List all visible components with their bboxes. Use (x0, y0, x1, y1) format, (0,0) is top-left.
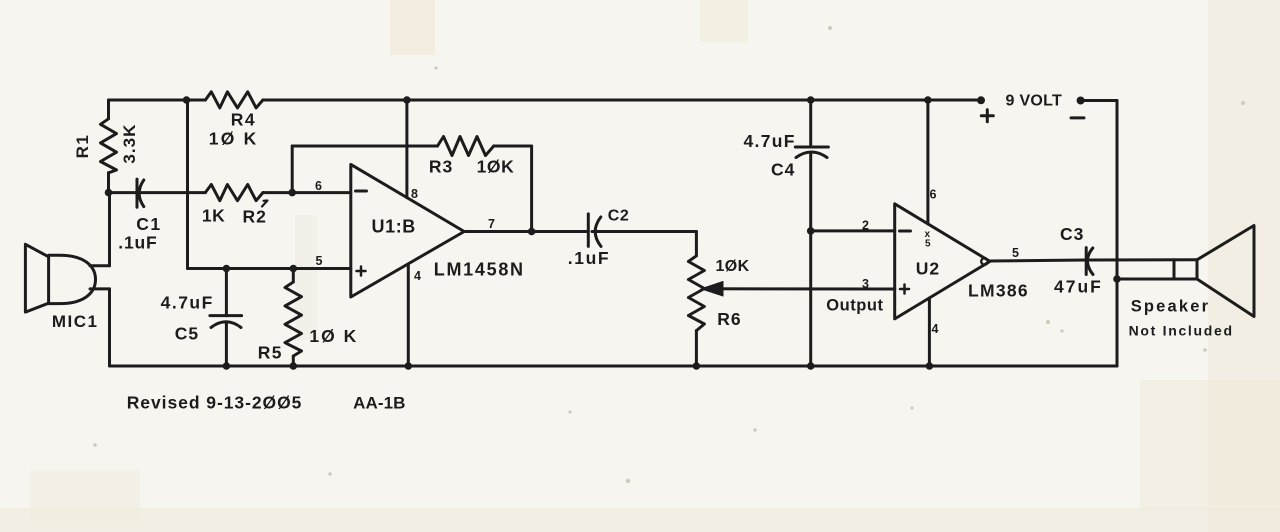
wire R1 bottom lead (107, 173, 110, 193)
label Not Included (1129, 323, 1234, 339)
svg-text:C3: C3 (1060, 224, 1084, 244)
op-amp U1 minus sign (356, 190, 367, 193)
wire mic top stub (90, 264, 110, 267)
wire U1 output pin7 (464, 230, 588, 233)
wire speaker bottom lead (1117, 278, 1197, 281)
svg-text:Output: Output (826, 297, 883, 315)
pin label 3 U2 (862, 277, 869, 291)
svg-text:LM1458N: LM1458N (434, 260, 525, 280)
speaker driver rectangle (1174, 260, 1197, 279)
label LM1458N (434, 260, 525, 280)
svg-text:4: 4 (932, 322, 939, 336)
wire right vertical (1116, 101, 1119, 367)
battery minus terminal dot (1077, 97, 1085, 105)
label R6 (717, 309, 741, 329)
wire C1 left lead (109, 191, 138, 194)
wire R6 wiper to pin3 (706, 287, 895, 290)
label Revised date (127, 393, 303, 413)
pin label 4 U1 (414, 269, 421, 283)
resistor R4 (205, 92, 263, 108)
label LM386 (968, 281, 1029, 301)
capacitor C4 (795, 147, 828, 158)
label x5 gain mark (925, 229, 932, 250)
wire R2 to node (263, 191, 292, 194)
wire feedback horizontal (292, 145, 437, 148)
speaker horn (1197, 226, 1254, 317)
svg-text:Speaker: Speaker (1131, 298, 1211, 316)
wire mic bottom vertical (108, 289, 111, 366)
wire plus input horizontal (188, 267, 351, 270)
svg-text:C5: C5 (175, 324, 199, 344)
resistor R2 (205, 185, 263, 201)
label C1 value .1uF (118, 233, 157, 253)
wire U2 pin4 vertical (928, 298, 931, 366)
node dot U1 pin8 (403, 96, 411, 104)
scan speckles (93, 26, 1245, 483)
svg-text:1ØK: 1ØK (716, 258, 750, 275)
op-amp U2 minus sign (900, 230, 911, 233)
wire R6 top lead (695, 232, 698, 256)
label R2 value 1K (202, 206, 225, 226)
svg-text:5: 5 (1012, 246, 1019, 260)
label C3 value 47uF (1054, 277, 1103, 297)
label R6 value 10K (716, 258, 750, 275)
label Output (826, 297, 883, 315)
svg-text:U1:B: U1:B (372, 217, 416, 237)
node dot R6 ground (693, 362, 701, 370)
wire C4 node to ground (809, 231, 812, 366)
wire pin6 input (292, 191, 351, 194)
op-amp U2 triangle (895, 204, 990, 319)
svg-text:3.3K: 3.3K (120, 124, 139, 164)
svg-text:5: 5 (925, 239, 931, 250)
svg-text:.1uF: .1uF (568, 248, 610, 268)
label R4 value 10 K (209, 129, 259, 149)
svg-text:4.7uF: 4.7uF (744, 131, 796, 151)
node dot U2 pin6 (924, 96, 932, 104)
label C4 (771, 160, 795, 180)
node dot output feedback junction (528, 228, 536, 236)
svg-text:47uF: 47uF (1054, 277, 1103, 297)
capacitor C3 (1086, 248, 1093, 275)
wire feedback down to output (530, 146, 533, 232)
svg-text:R4: R4 (231, 110, 256, 130)
wire R5 bottom lead (292, 356, 295, 366)
potentiometer R6 wiper arrow (701, 282, 723, 297)
svg-text:R6: R6 (717, 309, 741, 329)
svg-text:C1: C1 (136, 214, 161, 234)
resistor R5 (285, 282, 302, 356)
node dot C4 top (807, 96, 815, 104)
pin label 8 U1 (411, 187, 418, 201)
op-amp U2 plus sign (900, 285, 909, 294)
label C5 (175, 324, 199, 344)
wire R6 bottom lead (695, 331, 698, 366)
op-amp U1 plus sign (357, 267, 366, 276)
battery plus terminal dot (977, 96, 985, 104)
wire U1 pin8 vertical (405, 100, 408, 198)
wire bottom rail (110, 365, 1118, 368)
node dot C5 bottom (223, 362, 231, 370)
wire C4 bottom to pin2 node (809, 153, 812, 231)
svg-text:U2: U2 (916, 259, 940, 279)
wire bias divider vertical (186, 100, 189, 269)
node dot C1 junction (105, 189, 113, 197)
wire C5 bottom lead (225, 323, 228, 367)
wire left vertical top lead (107, 100, 110, 119)
svg-text:MIC1: MIC1 (52, 312, 99, 331)
label C1 (136, 214, 161, 234)
label C3 (1060, 224, 1084, 244)
svg-text:1Ø K: 1Ø K (309, 326, 358, 346)
node dot top rail divider (183, 96, 191, 104)
svg-text:6: 6 (315, 179, 322, 193)
microphone MIC1 cone (25, 244, 48, 312)
svg-text:2: 2 (862, 219, 869, 233)
node dot U2 pin4 ground (926, 362, 934, 370)
label U1:B (372, 217, 416, 237)
label MIC1 (52, 312, 99, 331)
label R5 value 10 K (309, 326, 358, 346)
svg-text:8: 8 (411, 187, 418, 201)
wire C1 to R2 (140, 191, 205, 194)
label C2 (608, 208, 629, 225)
svg-text:1K: 1K (202, 206, 225, 226)
wire R5 top lead (292, 269, 295, 283)
node dot R5 top (290, 265, 298, 273)
svg-text:5: 5 (316, 254, 323, 268)
wire C2 to corner (592, 230, 696, 233)
pin label 5 U1 (316, 254, 323, 268)
resistor R1 (101, 119, 117, 173)
svg-text:C2: C2 (608, 208, 629, 225)
node dot C4 ground (807, 362, 815, 370)
wire battery minus to right corner (1081, 99, 1117, 102)
battery plus sign (981, 110, 993, 122)
node dot pin2 corner (807, 227, 815, 235)
svg-text:1Ø K: 1Ø K (209, 129, 259, 149)
wire R3 to corner (494, 145, 532, 148)
label R4 (231, 110, 256, 130)
svg-text:R1: R1 (73, 134, 92, 159)
wire C4 top lead (809, 100, 812, 147)
svg-text:R3: R3 (429, 157, 453, 177)
svg-text:LM386: LM386 (968, 281, 1029, 301)
svg-text:7: 7 (488, 217, 495, 231)
wire mic bottom stub (90, 287, 110, 290)
svg-text:AA-1B: AA-1B (353, 394, 405, 413)
wire C5 top lead (225, 269, 228, 316)
svg-text:6: 6 (930, 188, 937, 202)
wire top rail left segment (109, 99, 206, 102)
resistor R3 (438, 137, 494, 156)
label AA-1B (353, 394, 405, 413)
op-amp U2 output circle (981, 258, 988, 265)
pin label 7 U1 (488, 217, 495, 231)
pin label 4 U2 (932, 322, 939, 336)
label Speaker (1131, 298, 1211, 316)
label 9 VOLT (1006, 93, 1063, 110)
wire C3 to speaker top (1090, 258, 1197, 261)
capacitor C1 (137, 179, 144, 207)
svg-text:Not Included: Not Included (1129, 323, 1234, 339)
pin label 5 U2 (1012, 246, 1019, 260)
wire mic top vertical (108, 193, 111, 266)
microphone MIC1 capsule (49, 255, 96, 303)
R2 tick mark (262, 201, 268, 207)
wire feedback vertical (291, 146, 294, 193)
wire U1 pin4 vertical (407, 264, 410, 366)
svg-text:3: 3 (862, 277, 869, 291)
wire U2 pin6 vertical (926, 100, 929, 224)
capacitor C5 (210, 316, 242, 328)
pin label 6 U2 (930, 188, 937, 202)
svg-text:R2: R2 (243, 207, 267, 227)
node dot speaker bottom (1113, 275, 1121, 283)
potentiometer R6 (688, 256, 704, 331)
node dot C5 top (223, 265, 231, 273)
battery minus sign (1071, 116, 1084, 119)
pin label 6 U1 (315, 179, 322, 193)
svg-text:.1uF: .1uF (118, 233, 157, 253)
label R5 (258, 343, 283, 363)
op-amp U1 triangle (351, 164, 464, 297)
label R1 (73, 134, 92, 159)
label C4 value 4.7uF (744, 131, 796, 151)
node dot R2 pin6 junction (288, 189, 296, 197)
capacitor C2 (588, 214, 601, 247)
svg-text:9 VOLT: 9 VOLT (1006, 93, 1063, 110)
node dot U1 pin4 ground (405, 362, 413, 370)
label C2 value .1uF (568, 248, 610, 268)
svg-text:Revised 9-13-2ØØ5: Revised 9-13-2ØØ5 (127, 393, 303, 413)
wire U2 pin5 output (989, 260, 1087, 261)
label C5 value 4.7uF (161, 293, 214, 313)
label R3 value 10K (477, 157, 515, 177)
label R3 (429, 157, 453, 177)
svg-text:C4: C4 (771, 160, 795, 180)
label U2 (916, 259, 940, 279)
svg-text:R5: R5 (258, 343, 283, 363)
label R1 value 3.3K (120, 124, 139, 164)
node dot R5 bottom (290, 362, 298, 370)
label R2 (243, 207, 267, 227)
wire top rail right segment (263, 99, 981, 102)
wire pin2 horizontal (811, 229, 895, 232)
svg-text:4.7uF: 4.7uF (161, 293, 214, 313)
svg-text:1ØK: 1ØK (477, 157, 515, 177)
pin label 2 U2 (862, 219, 869, 233)
svg-text:4: 4 (414, 269, 421, 283)
